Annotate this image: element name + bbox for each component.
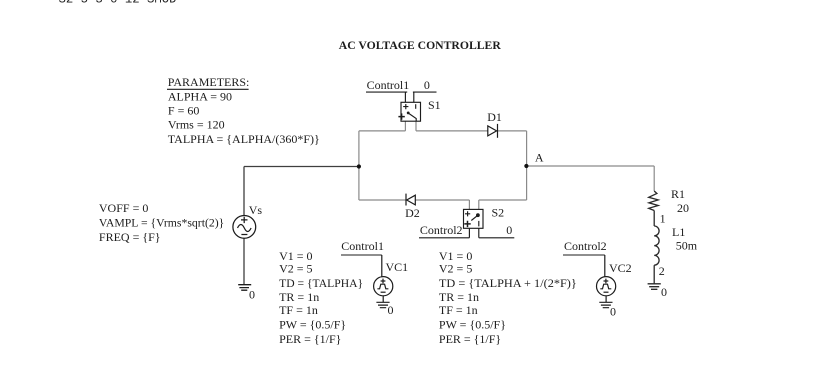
svg-text:D1: D1 [487,110,502,124]
svg-text:PER = {1/F}: PER = {1/F} [279,332,341,346]
svg-text:TF = 1n: TF = 1n [439,303,478,317]
svg-text:20: 20 [677,201,689,215]
svg-text:0: 0 [249,287,255,301]
svg-text:TALPHA = {ALPHA/(360*F)}: TALPHA = {ALPHA/(360*F)} [168,132,320,146]
svg-text:L1: L1 [672,225,685,239]
svg-text:VOFF = 0: VOFF = 0 [99,201,148,215]
svg-text:S1: S1 [428,98,441,112]
svg-text:0: 0 [610,305,616,319]
svg-text:Control2: Control2 [564,239,607,253]
svg-text:V2 = 5: V2 = 5 [439,262,472,276]
svg-text:0: 0 [506,223,512,237]
svg-text:Vrms = 120: Vrms = 120 [168,118,225,132]
svg-text:D2: D2 [405,206,420,220]
svg-text:S2 5 3 0 12 SMOD: S2 5 3 0 12 SMOD [59,0,177,7]
svg-text:ALPHA = 90: ALPHA = 90 [168,90,232,104]
svg-text:S2: S2 [492,206,505,220]
svg-text:A: A [535,151,544,165]
svg-text:TD = {TALPHA}: TD = {TALPHA} [279,276,363,290]
svg-text:0: 0 [424,78,430,92]
svg-text:V2 = 5: V2 = 5 [279,262,312,276]
svg-text:0: 0 [388,303,394,317]
svg-text:VC1: VC1 [386,260,409,274]
svg-text:Vs: Vs [249,203,263,217]
svg-text:FREQ = {F}: FREQ = {F} [99,230,161,244]
svg-text:TR = 1n: TR = 1n [439,290,479,304]
svg-text:R1: R1 [671,187,685,201]
svg-text:VAMPL = {Vrms*sqrt(2)}: VAMPL = {Vrms*sqrt(2)} [99,216,224,230]
svg-text:Control1: Control1 [341,239,384,253]
svg-text:1: 1 [660,212,666,226]
svg-text:TD = {TALPHA + 1/(2*F)}: TD = {TALPHA + 1/(2*F)} [439,276,577,290]
svg-text:Control2: Control2 [420,223,463,237]
svg-text:TF = 1n: TF = 1n [279,303,318,317]
svg-text:50m: 50m [676,239,698,253]
svg-text:TR = 1n: TR = 1n [279,290,319,304]
svg-text:Control1: Control1 [367,78,410,92]
svg-text:PW = {0.5/F}: PW = {0.5/F} [279,318,346,332]
svg-text:PER = {1/F}: PER = {1/F} [439,332,501,346]
svg-text:PARAMETERS:: PARAMETERS: [168,75,250,89]
svg-text:AC VOLTAGE CONTROLLER: AC VOLTAGE CONTROLLER [339,38,501,52]
svg-text:2: 2 [659,264,665,278]
svg-text:F = 60: F = 60 [168,104,199,118]
svg-text:PW = {0.5/F}: PW = {0.5/F} [439,318,506,332]
svg-text:0: 0 [661,285,667,299]
svg-text:VC2: VC2 [609,261,632,275]
